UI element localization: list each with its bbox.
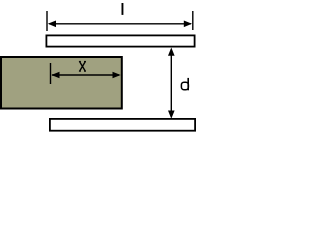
dimension l: horizontal line — [49, 23, 191, 25]
dimension d: top arrowhead — [168, 48, 175, 56]
label x — [79, 61, 86, 71]
dimension l: right arrowhead — [184, 21, 192, 28]
dimension x: left arrowhead — [51, 72, 59, 79]
dimension l: left arrowhead — [48, 21, 56, 28]
label d — [181, 78, 189, 90]
dimension d: vertical line — [170, 49, 172, 117]
dielectric slab — [1, 57, 122, 109]
dimension d: bottom arrowhead — [168, 111, 175, 119]
bottom capacitor plate — [50, 119, 195, 131]
dimension l: right extension tick — [192, 11, 194, 30]
top capacitor plate — [46, 35, 194, 46]
dimension x: right arrowhead — [113, 72, 121, 79]
dimension x: left extension tick — [50, 63, 52, 84]
dimension l: left extension tick — [46, 11, 48, 31]
label l — [122, 3, 124, 15]
dimension x: horizontal line — [52, 74, 119, 76]
